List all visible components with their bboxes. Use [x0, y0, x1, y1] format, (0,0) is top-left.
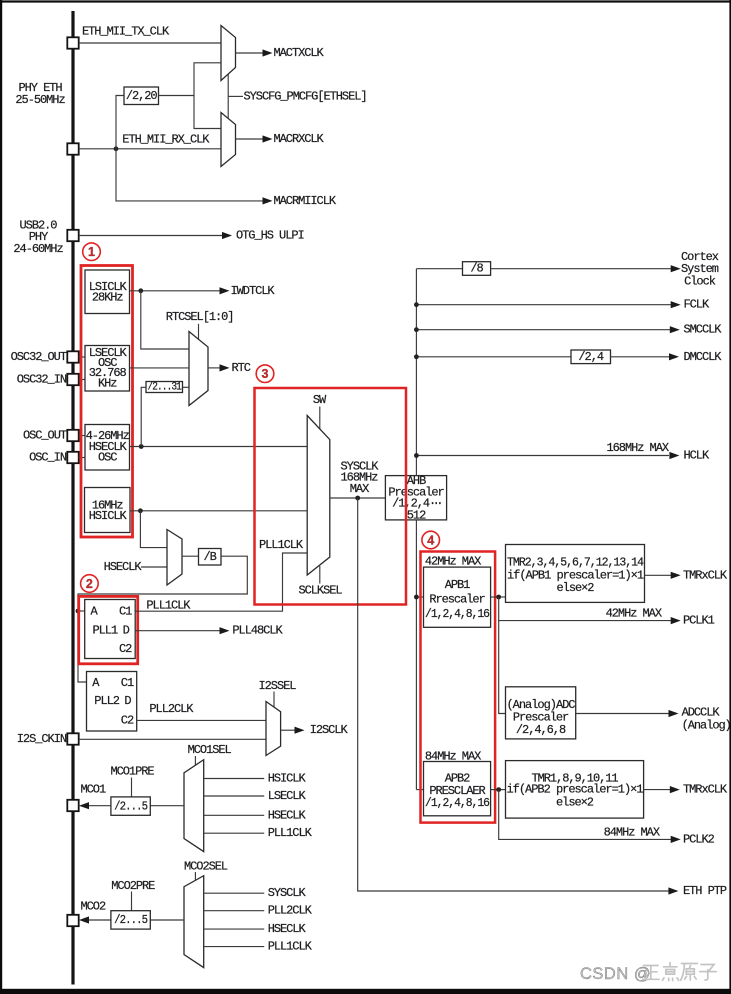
- output RTC: [208, 367, 223, 369]
- svg-text:TMRxCLK: TMRxCLK: [683, 568, 728, 582]
- divider /B: [199, 549, 222, 566]
- wire mco1 in HSECLK: [204, 814, 265, 816]
- svg-text:MAX: MAX: [350, 482, 369, 496]
- OSC_OUT pin: [67, 430, 78, 441]
- wire /B to PLL A inputs: [78, 556, 247, 682]
- svg-text:4: 4: [427, 534, 434, 548]
- junction SMCCLK: [414, 327, 419, 332]
- svg-text:D: D: [124, 694, 131, 708]
- wire mco2 in PLL2CLK: [204, 910, 265, 912]
- svg-text:/2...31: /2...31: [147, 381, 182, 393]
- junction PLL1 A: [76, 609, 81, 614]
- output MACRXCLK: [236, 138, 266, 140]
- wire RTCSEL select: [198, 324, 200, 339]
- red callout 4: [422, 531, 440, 549]
- wire OTG_HS: [79, 235, 223, 237]
- block PLL1: [85, 600, 136, 659]
- divider /2,4: [571, 350, 611, 364]
- svg-text:C2: C2: [119, 642, 132, 656]
- svg-text:ETH_MII_RX_CLK: ETH_MII_RX_CLK: [122, 132, 210, 146]
- wire LSECLK out: [130, 367, 190, 369]
- block TMR1 group: [506, 761, 644, 819]
- svg-text:25-50MHz: 25-50MHz: [15, 93, 65, 107]
- svg-text:168MHz MAX: 168MHz MAX: [606, 441, 668, 455]
- red callout 3: [256, 365, 274, 383]
- svg-text:PLL2CLK: PLL2CLK: [268, 904, 313, 918]
- svg-text:/1,2,4,8,16: /1,2,4,8,16: [425, 796, 490, 810]
- divider /2...5 mco2: [111, 911, 150, 929]
- wire ADCCLK: [576, 713, 669, 715]
- svg-text:OSC_IN: OSC_IN: [29, 451, 67, 465]
- block AHB Prescaler: [385, 476, 446, 520]
- svg-text:DMCCLK: DMCCLK: [684, 350, 723, 364]
- wire MACRMIICLK: [116, 149, 265, 201]
- output FCLK: [671, 301, 681, 308]
- block APB1 Prescaler: [424, 567, 491, 627]
- wire /2...31 out: [183, 386, 190, 388]
- svg-text:/2,4,6,8: /2,4,6,8: [516, 723, 566, 737]
- svg-text:3: 3: [262, 367, 269, 381]
- svg-text:LSECLK: LSECLK: [268, 789, 307, 803]
- wire /8 to cortex: [491, 268, 671, 270]
- mux MCO2: [184, 876, 204, 968]
- output TMRxCLK apb2: [644, 789, 670, 791]
- svg-text:I2SSEL: I2SSEL: [259, 679, 297, 693]
- wire HSECLK to /2...31: [141, 387, 146, 446]
- svg-text:KHz: KHz: [98, 376, 117, 390]
- output PLL48CLK: [135, 630, 221, 632]
- red box 2: [79, 596, 138, 663]
- wire ETH_MII_TX_CLK: [79, 42, 221, 44]
- output ADCCLK (Analog): [669, 710, 679, 717]
- wire HSECLK out: [130, 446, 308, 448]
- MCO1 pin: [67, 800, 78, 811]
- junction APB2 out: [496, 787, 501, 792]
- svg-text:/1,2,4,8,16: /1,2,4,8,16: [425, 607, 490, 621]
- OTG pin: [67, 230, 78, 241]
- wire MCO1PRE select: [131, 778, 133, 797]
- svg-text:HCLK: HCLK: [684, 449, 710, 463]
- OSC32_IN pin: [67, 374, 78, 385]
- red box 1: [81, 266, 133, 538]
- svg-text:SMCCLK: SMCCLK: [684, 323, 723, 337]
- svg-text:OSC_OUT: OSC_OUT: [23, 429, 67, 443]
- wire MCO2PRE select: [131, 892, 133, 911]
- divider /8: [463, 262, 491, 276]
- svg-text:SYSCFG_PMCFG[ETHSEL]: SYSCFG_PMCFG[ETHSEL]: [244, 89, 367, 103]
- junction LSICLK: [138, 288, 143, 293]
- label PHY ETH 25-50MHz: [15, 81, 65, 107]
- wire /2...5 to MCO1 pin: [89, 805, 111, 807]
- wire mco2 in PLL1CLK: [204, 946, 265, 948]
- wire to /2,20: [116, 96, 124, 149]
- svg-text:(Analog): (Analog): [682, 718, 731, 732]
- watermark hanzi: [643, 963, 717, 981]
- svg-text:MCO2: MCO2: [81, 900, 106, 914]
- svg-text:Clock: Clock: [684, 274, 716, 288]
- wire ETH_MII_RX_CLK: [79, 148, 221, 150]
- svg-text:MCO2SEL: MCO2SEL: [184, 860, 228, 874]
- mux RTCSEL: [189, 332, 208, 406]
- red box 3: [255, 388, 407, 605]
- I2S_CKIN pin: [67, 733, 78, 744]
- wire SYSCLK out: [330, 497, 386, 499]
- svg-text:OSC32_IN: OSC32_IN: [17, 373, 67, 387]
- wire mux to /2...5 mco1: [150, 805, 184, 807]
- svg-text:MACRMIICLK: MACRMIICLK: [274, 194, 337, 208]
- junction HSICLK: [138, 508, 143, 513]
- wire OSC_OUT stub: [79, 435, 86, 437]
- divider /2,20: [124, 87, 159, 105]
- wire PLL2CLK: [137, 719, 266, 721]
- svg-text:IWDTCLK: IWDTCLK: [231, 284, 276, 298]
- wire LSICLK out: [130, 290, 223, 292]
- svg-text:else×2: else×2: [557, 581, 595, 595]
- svg-text:D: D: [123, 624, 130, 638]
- wire to PLL1 A: [78, 610, 85, 612]
- junction FCLK: [414, 302, 419, 307]
- red box 4: [421, 552, 496, 823]
- wire /2...5 to MCO2 pin: [89, 919, 111, 921]
- junction HSECLK: [139, 444, 144, 449]
- wire to ADC prescaler: [499, 621, 506, 714]
- wire AHB distribution riser: [415, 269, 417, 476]
- wire APB2 out: [491, 789, 506, 791]
- output MACRMIICLK: [263, 197, 273, 204]
- junction RX node: [114, 146, 119, 151]
- wire HSICLK out: [130, 510, 307, 512]
- svg-text:ETH_MII_TX_CLK: ETH_MII_TX_CLK: [82, 25, 170, 39]
- ETH_MII_RX_CLK pin: [67, 143, 78, 154]
- svg-text:MCO2PRE: MCO2PRE: [111, 879, 155, 893]
- wire mco1 in HSICLK: [204, 778, 265, 780]
- svg-text:PLL1CLK: PLL1CLK: [146, 598, 191, 612]
- wire SCLKSEL select: [319, 566, 321, 584]
- mux ETH TX: [221, 26, 236, 81]
- wire HSICLK to PLL mux: [140, 511, 167, 548]
- OSC_IN pin: [67, 452, 78, 463]
- wire OSC_IN stub: [79, 457, 86, 459]
- svg-text:/2...5: /2...5: [114, 913, 148, 927]
- junction APB1 in: [414, 595, 419, 600]
- wire to APB2: [416, 789, 423, 791]
- wire mux to /2...5 mco2: [150, 919, 184, 921]
- output PCLK1: [671, 617, 681, 624]
- svg-text:PLL1CLK: PLL1CLK: [268, 940, 313, 954]
- svg-text:OSC: OSC: [98, 450, 117, 464]
- svg-text:SCLKSEL: SCLKSEL: [298, 584, 342, 598]
- arrow into MCO2 pin: [79, 916, 89, 923]
- output MACTXCLK: [236, 52, 266, 54]
- svg-text:C1: C1: [121, 676, 134, 690]
- wire I2SSEL select: [273, 692, 275, 708]
- svg-text:TMRxCLK: TMRxCLK: [683, 783, 728, 797]
- svg-text:/B: /B: [204, 550, 217, 564]
- wire OSC32_OUT stub: [79, 356, 86, 358]
- output HCLK: [669, 452, 679, 459]
- svg-text:SYSCLK: SYSCLK: [268, 886, 307, 900]
- svg-text:HSICLK: HSICLK: [268, 772, 307, 786]
- ETH_MII_TX_CLK pin: [67, 37, 78, 48]
- svg-text:RTC: RTC: [232, 361, 251, 375]
- junction APB1 out: [496, 595, 501, 600]
- svg-text:/2,20: /2,20: [126, 89, 158, 103]
- main pin bus line: [71, 11, 74, 985]
- junction SYSCLK: [355, 496, 360, 501]
- svg-text:HSECLK: HSECLK: [268, 922, 307, 936]
- label SYSCLK 168MHz MAX: [341, 460, 380, 497]
- output Cortex System Clock: [671, 265, 681, 272]
- svg-text:MCO1SEL: MCO1SEL: [188, 743, 232, 757]
- svg-text:FCLK: FCLK: [684, 298, 710, 312]
- svg-text:PLL2: PLL2: [94, 694, 119, 708]
- wire SMCCLK: [416, 329, 670, 331]
- wire mco2 in HSECLK: [204, 928, 265, 930]
- block PLL2: [87, 672, 137, 732]
- divider /2...5 mco1: [111, 797, 150, 815]
- svg-text:I2SCLK: I2SCLK: [310, 723, 349, 737]
- wire to APB1: [416, 596, 423, 598]
- svg-text:else×2: else×2: [556, 795, 594, 809]
- output TMRxCLK apb1: [645, 574, 672, 576]
- block TMR2 group: [506, 545, 645, 603]
- svg-text:PCLK1: PCLK1: [683, 614, 715, 628]
- wire FCLK: [416, 304, 671, 306]
- svg-text:PLL1CLK: PLL1CLK: [268, 826, 313, 840]
- svg-text:MACRXCLK: MACRXCLK: [274, 132, 325, 146]
- wire mco1 in PLL1CLK: [204, 832, 265, 834]
- svg-text:2: 2: [86, 577, 93, 591]
- svg-text:/2...5: /2...5: [114, 799, 148, 813]
- svg-text:ETH PTP: ETH PTP: [683, 884, 727, 898]
- svg-text:MCO1PRE: MCO1PRE: [110, 765, 154, 779]
- mux I2SSEL: [266, 702, 281, 756]
- output IWDTCLK: [220, 287, 230, 294]
- junction HCLK: [414, 453, 419, 458]
- mux SW: [307, 416, 330, 576]
- block HSICLK 16MHz: [85, 488, 131, 533]
- output PCLK2: [671, 836, 681, 843]
- svg-text:MCO1: MCO1: [81, 783, 106, 797]
- output I2SCLK: [281, 729, 295, 731]
- wire OSC32_IN stub: [79, 379, 86, 381]
- svg-text:MACTXCLK: MACTXCLK: [274, 46, 325, 60]
- red box 3 edge over AHB box: [405, 475, 408, 522]
- block LSECLK OSC 32.768KHz: [85, 346, 130, 392]
- svg-text:HSECLK: HSECLK: [268, 808, 307, 822]
- svg-text:PCLK2: PCLK2: [683, 832, 715, 846]
- MCO2 pin: [67, 915, 78, 926]
- svg-text:PLL2CLK: PLL2CLK: [149, 702, 194, 716]
- wire to /8: [416, 268, 462, 270]
- wire HSECLK label to mux: [141, 566, 167, 568]
- svg-text:RTCSEL[1:0]: RTCSEL[1:0]: [166, 310, 234, 324]
- output OTG_HS ULPI: [222, 232, 232, 239]
- arrow into MCO1 pin: [79, 802, 89, 809]
- junction DMCCLK: [414, 354, 419, 359]
- wire PLL1CLK: [135, 553, 307, 611]
- svg-text:Rrescaler: Rrescaler: [429, 592, 485, 606]
- wire LSICLK to RTC mux: [141, 291, 189, 349]
- OSC32_OUT pin: [67, 351, 78, 362]
- red callout 1: [83, 243, 101, 261]
- wire DMCCLK: [416, 356, 571, 358]
- output DMCCLK: [669, 353, 679, 360]
- svg-text:OSC32_OUT: OSC32_OUT: [11, 350, 67, 364]
- svg-text:C1: C1: [119, 605, 132, 619]
- wire MCO1SEL select: [194, 756, 196, 765]
- divider /2...31: [146, 382, 183, 393]
- wire PCLK1: [499, 597, 671, 621]
- wire MCO2SEL select: [194, 872, 196, 881]
- wire bracket feed: [194, 63, 221, 129]
- svg-text:24-60MHz: 24-60MHz: [13, 242, 63, 256]
- block HSECLK OSC: [85, 425, 130, 471]
- wire I2S_CKIN: [79, 738, 266, 740]
- svg-text:1: 1: [88, 245, 95, 259]
- label USB2.0 PHY 24-60MHz: [13, 219, 63, 257]
- wire SW select: [319, 407, 321, 429]
- svg-text:PLL48CLK: PLL48CLK: [232, 624, 283, 638]
- svg-text:I2S_CKIN: I2S_CKIN: [17, 732, 67, 746]
- svg-text:APB1: APB1: [445, 578, 470, 592]
- wire mco2 in SYSCLK: [204, 892, 265, 894]
- mux MCO1: [184, 760, 204, 852]
- svg-text:42MHz MAX: 42MHz MAX: [606, 607, 662, 621]
- svg-text:PLL1: PLL1: [93, 624, 118, 638]
- svg-text:CSDN @: CSDN @: [580, 965, 651, 983]
- svg-text:28KHz: 28KHz: [92, 290, 124, 304]
- output SMCCLK: [670, 326, 680, 333]
- svg-text:/8: /8: [470, 262, 483, 276]
- block ADC Prescaler: [506, 687, 576, 739]
- mux ETH RX: [221, 113, 236, 167]
- svg-text:PLL1CLK: PLL1CLK: [259, 538, 304, 552]
- mux PLL source: [167, 530, 182, 586]
- svg-text:HSECLK: HSECLK: [104, 560, 143, 574]
- svg-text:SW: SW: [313, 393, 327, 407]
- block APB2 Prescaler: [424, 762, 491, 816]
- wire mco1 in LSECLK: [204, 795, 265, 797]
- svg-text:C2: C2: [121, 713, 134, 727]
- red callout 2: [81, 575, 99, 593]
- svg-text:/2,4: /2,4: [578, 350, 603, 364]
- svg-text:OTG_HS ULPI: OTG_HS ULPI: [236, 229, 304, 243]
- wire APB1 out: [491, 596, 506, 598]
- svg-text:HSICLK: HSICLK: [89, 509, 128, 523]
- wire /2,4 to DMCCLK: [611, 356, 670, 358]
- wire mux to /B: [182, 555, 199, 557]
- wire ETH PTP: [358, 498, 669, 891]
- output ETH PTP: [668, 887, 678, 894]
- wire ETHSEL select: [227, 75, 229, 119]
- wire PCLK2: [499, 790, 671, 840]
- wire /2,20 to bracket: [159, 95, 195, 97]
- wire APB riser: [415, 520, 417, 790]
- svg-text:84MHz MAX: 84MHz MAX: [604, 826, 660, 840]
- block LSICLK 28KHz: [85, 270, 130, 314]
- wire HCLK: [416, 455, 669, 457]
